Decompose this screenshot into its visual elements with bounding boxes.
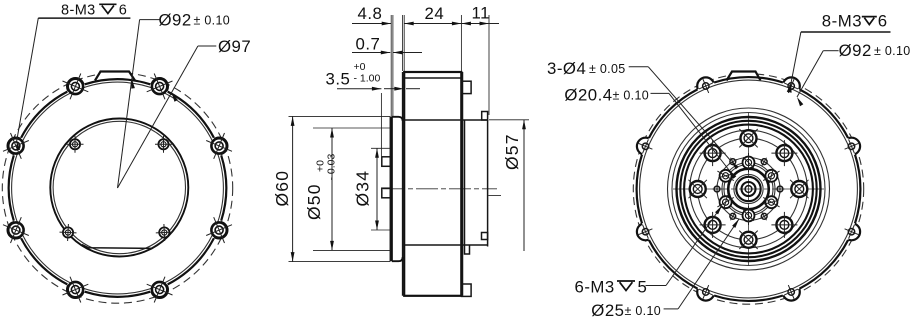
flange front lip 0.7	[389, 117, 391, 261]
8 mounting screws M3	[211, 138, 226, 153]
label 8-M3 depth 6 (right)	[787, 11, 891, 93]
rear top cable tab	[727, 72, 761, 81]
pitch circle of 8 screws	[698, 138, 800, 240]
svg-text:6: 6	[119, 3, 127, 19]
4 rotor screws	[70, 139, 80, 149]
8 ear holes	[848, 143, 854, 149]
rear cover top tab	[482, 112, 488, 121]
motor body outline	[404, 72, 461, 296]
label Ø97 (left)	[118, 37, 252, 188]
rear ear bumps	[843, 138, 860, 155]
svg-text:± 0.10: ± 0.10	[613, 89, 649, 103]
stator bore bottom line	[404, 244, 487, 246]
body front face inner line	[402, 72, 404, 296]
svg-text:Ø57: Ø57	[502, 133, 522, 170]
dimension Ø34	[353, 148, 391, 230]
8 rotor screws	[791, 181, 807, 197]
right view: rear face of motor	[633, 72, 863, 305]
stator housing bore circles	[668, 108, 830, 270]
dimension Ø60	[272, 116, 390, 261]
svg-text:Ø60: Ø60	[272, 170, 292, 207]
svg-text:Ø92: Ø92	[839, 41, 872, 60]
svg-text:Ø20.4: Ø20.4	[564, 86, 612, 105]
dimension 4.8	[352, 4, 404, 117]
shaft center circles	[734, 174, 763, 203]
rotor bell inner	[684, 125, 813, 254]
centerline	[383, 188, 497, 190]
svg-text:3.5: 3.5	[326, 70, 351, 89]
svg-text:Ø92: Ø92	[159, 11, 192, 30]
rotor bell outer	[677, 117, 821, 261]
label Ø20.4 +-0.10	[564, 86, 736, 179]
svg-text:- 1.00: - 1.00	[354, 72, 381, 84]
svg-text:± 0.10: ± 0.10	[625, 304, 661, 318]
housing outer circle (arcs between ears)	[168, 92, 214, 138]
middle view: side section	[382, 72, 497, 296]
bottom chord plate	[82, 244, 159, 248]
svg-text:6: 6	[878, 11, 888, 30]
ear bumps (8 mounting lugs)	[211, 138, 228, 155]
rotor inner circle inner	[53, 121, 185, 253]
svg-text:Ø25: Ø25	[591, 301, 624, 320]
label Ø92 +-0.10 (right)	[797, 41, 910, 106]
dimension 11	[461, 3, 499, 115]
svg-text:± 0.10: ± 0.10	[874, 44, 910, 58]
svg-text:3-Ø4: 3-Ø4	[547, 59, 586, 78]
label 6-M3 depth 5	[575, 206, 723, 297]
body top inner edge	[404, 77, 461, 79]
dashed circle Ø97	[2, 73, 232, 303]
6 hub screws M3	[717, 158, 780, 221]
rear housing fill	[637, 77, 861, 301]
hub outer circle	[724, 165, 773, 214]
rear bottom ear tab	[462, 284, 472, 296]
body rear face inner line	[462, 72, 464, 296]
screw boss circle	[690, 130, 808, 248]
dimension Ø50 +0 -0.03	[304, 128, 390, 250]
svg-text:4.8: 4.8	[358, 4, 383, 23]
rear housing inner rim	[640, 80, 858, 298]
svg-text:+0: +0	[354, 61, 366, 73]
stator bore top line	[404, 119, 487, 121]
centerline horizontal	[673, 188, 824, 190]
svg-text:Ø34: Ø34	[353, 170, 373, 207]
hub circle Ø20.4	[728, 169, 769, 210]
left view: front face of motor	[2, 72, 232, 304]
svg-text:± 0.05: ± 0.05	[589, 62, 625, 76]
svg-text:8-M3: 8-M3	[822, 11, 862, 30]
connector tab upper	[382, 157, 391, 167]
label Ø92 +-0.10 (left)	[118, 11, 230, 188]
rear housing outer circle (arcs between ears)	[800, 89, 849, 138]
label 8-M3 depth 6 (left)	[17, 3, 131, 151]
svg-text:11: 11	[472, 3, 490, 22]
svg-text:0.7: 0.7	[356, 35, 381, 54]
centerline vertical	[748, 113, 750, 265]
dimension 24	[404, 4, 461, 71]
housing body fill	[9, 79, 226, 296]
rotor inner circle outer	[50, 119, 188, 257]
dimension 0.7	[352, 35, 422, 55]
svg-text:Ø50: Ø50	[304, 183, 324, 220]
connector tab lower	[382, 188, 391, 198]
rotor bell mid	[680, 121, 816, 257]
svg-text:6-M3: 6-M3	[575, 277, 615, 296]
6 small holes Ø4	[777, 186, 783, 192]
rear top ear tab	[462, 81, 472, 93]
top cable tab	[95, 72, 135, 81]
svg-text:8-M3: 8-M3	[61, 3, 96, 19]
dimension Ø57	[488, 120, 529, 251]
dimension 3.5 +0 -1.00	[326, 61, 421, 156]
label 3-Ø4 +-0.05	[547, 59, 739, 169]
rear cover bottom tab	[482, 233, 488, 240]
dashed circle Ø97 rear	[633, 74, 863, 304]
rear cover Ø57 outline	[465, 120, 488, 254]
svg-text:24: 24	[425, 4, 445, 23]
svg-text:Ø97: Ø97	[218, 37, 251, 56]
housing inner rim line	[12, 82, 224, 294]
svg-text:5: 5	[638, 277, 648, 296]
label Ø25 +-0.10	[591, 219, 739, 320]
front flange plate Ø60	[392, 117, 403, 261]
svg-text:± 0.10: ± 0.10	[194, 14, 230, 28]
